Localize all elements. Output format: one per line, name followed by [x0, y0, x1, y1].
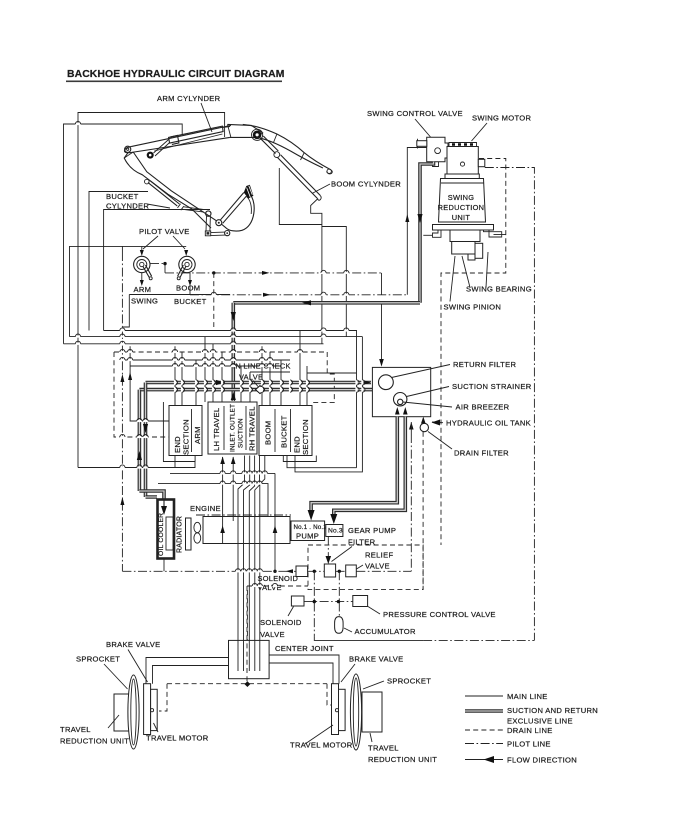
gear pump filter box [324, 564, 335, 577]
bank end sub box left [163, 402, 195, 462]
svg-text:VALVE: VALVE [365, 562, 390, 571]
air breezer [398, 399, 403, 404]
svg-text:RELIEF: RELIEF [365, 551, 393, 560]
svg-text:SUCTION STRAINER: SUCTION STRAINER [452, 382, 532, 391]
swing control valve body [427, 137, 448, 161]
control valve bank box1 [169, 406, 202, 456]
svg-text:TRAVEL: TRAVEL [60, 725, 91, 734]
wire bundle h4 [120, 359, 290, 361]
wire bundle h2 [70, 336, 363, 338]
wire left pilot return 1 [70, 246, 123, 336]
wire swing pilot dashdot [485, 168, 535, 641]
swing pinion housing [450, 230, 480, 242]
wire cooler drop thick A [139, 383, 145, 498]
svg-text:SPROCKET: SPROCKET [387, 677, 431, 686]
wire drain filter down dashed [422, 432, 424, 590]
wire pump to bank suction 1 [222, 457, 224, 544]
excavator elbow pin [253, 131, 262, 140]
solenoid valve SV1 [296, 566, 308, 577]
excavator boom member [243, 124, 331, 169]
engine fan [194, 522, 201, 532]
legend suction return [465, 709, 503, 713]
wire cooler outlet B [158, 484, 268, 517]
excavator arm cylinder eye [147, 152, 154, 159]
wire pilot box right dashed [213, 273, 215, 327]
pump no1 no2 [291, 521, 325, 541]
svg-text:PILOT LINE: PILOT LINE [507, 740, 551, 749]
pilot valve PV1 (arm/swing) [134, 256, 150, 272]
dashed region solenoid [247, 585, 308, 587]
wire bucket cylinder line [104, 210, 210, 331]
svg-text:SWING: SWING [131, 297, 158, 306]
svg-text:VALVE: VALVE [258, 583, 282, 592]
wire tank suction thick A [311, 417, 397, 514]
svg-text:BOOM: BOOM [176, 284, 200, 293]
svg-text:SWING PINION: SWING PINION [444, 303, 502, 312]
svg-text:GEAR PUMP: GEAR PUMP [348, 526, 396, 535]
wire cooler feed [139, 491, 164, 500]
pump no3 [326, 525, 343, 537]
wire row1-row2 dashdot a [313, 571, 315, 637]
wire engine coupling dashdot [196, 514, 291, 516]
wire drain bundle dashed [114, 352, 334, 403]
svg-text:PILOT VALVE: PILOT VALVE [139, 227, 190, 236]
swing motor body [447, 147, 478, 175]
wire inlet feed thick [232, 303, 236, 401]
relief valve [346, 565, 357, 577]
excavator arm cylinder [169, 126, 224, 143]
excavator bucket link bars [206, 211, 211, 216]
wire pilot vertical 2 [130, 346, 169, 421]
wire left travel B [153, 666, 229, 684]
svg-text:SWING CONTROL VALVE: SWING CONTROL VALVE [367, 109, 463, 118]
wire pump return mid [274, 473, 276, 571]
svg-text:ARM CYLYNDER: ARM CYLYNDER [157, 94, 221, 103]
svg-text:SECTION: SECTION [301, 419, 310, 455]
wire left bucket line [89, 192, 148, 331]
svg-text:TRAVEL: TRAVEL [368, 744, 399, 753]
wire cooler outlet A [170, 472, 275, 474]
legend flow direction [465, 759, 503, 761]
svg-text:HYDRAULIC OIL TANK: HYDRAULIC OIL TANK [446, 419, 531, 428]
wire right travel B [269, 663, 333, 684]
excavator bucket [221, 193, 247, 224]
node pilot junction [163, 262, 166, 265]
wire swing valve return thick [420, 162, 434, 303]
svg-text:No.1 . No.2: No.1 . No.2 [294, 524, 328, 531]
wire bundle h5 [130, 365, 281, 367]
arrow out pilot valve boom [189, 273, 191, 280]
oil cooler [158, 500, 175, 559]
svg-text:ACCUMULATOR: ACCUMULATOR [355, 627, 416, 636]
legend pilot line [465, 743, 503, 745]
wire main line thick A [146, 381, 372, 385]
excavator elbow plate [228, 124, 263, 137]
wire arm hose link [322, 227, 346, 337]
wire bundle h1 [104, 331, 357, 468]
svg-text:BRAKE VALVE: BRAKE VALVE [349, 655, 404, 664]
svg-text:PUMP: PUMP [296, 532, 319, 541]
svg-text:SECTION: SECTION [182, 419, 191, 455]
svg-text:SWING MOTOR: SWING MOTOR [472, 114, 531, 123]
legend main line [465, 695, 503, 697]
in line check valve [256, 386, 265, 394]
wire row2 to pilot line [314, 637, 423, 641]
svg-text:RETURN FILTER: RETURN FILTER [453, 360, 516, 369]
arrow into pilot valve arm [140, 250, 144, 256]
svg-text:DRAIN FILTER: DRAIN FILTER [454, 449, 509, 458]
radiator [186, 518, 192, 550]
wire row1-row2 dashdot b [338, 571, 340, 616]
wire relief to tank [410, 422, 412, 434]
svg-text:RH TRAVEL: RH TRAVEL [248, 406, 257, 451]
bank end sub box right [283, 456, 316, 462]
svg-text:SOLENOID: SOLENOID [260, 618, 302, 627]
pilot group divider [129, 294, 230, 296]
excavator dipper member [131, 125, 231, 152]
excavator boom foot pivot [125, 146, 131, 152]
svg-text:BUCKET: BUCKET [106, 192, 139, 201]
arrow out pilot valve arm [141, 273, 143, 280]
engine box [203, 517, 290, 544]
left travel motor brake valve [144, 684, 151, 735]
wire boom cyl drop [311, 199, 322, 344]
wire travel drain dashed [159, 684, 167, 711]
arrow into pilot valve boom [184, 250, 188, 256]
svg-text:SOLENOID: SOLENOID [258, 574, 299, 583]
node pump return [273, 570, 276, 573]
left travel reduction unit [114, 694, 134, 731]
control valve bank box3 [259, 406, 312, 456]
svg-text:SUCTION: SUCTION [238, 418, 245, 448]
svg-text:BUCKET: BUCKET [280, 415, 289, 448]
svg-text:EXCLUSIVE LINE: EXCLUSIVE LINE [507, 717, 573, 726]
return filter [379, 375, 394, 390]
control valve bank box2 [208, 402, 257, 454]
suction strainer [394, 393, 407, 406]
center joint [229, 640, 270, 678]
left sprocket [128, 675, 139, 749]
wire main return thick top [233, 301, 420, 305]
svg-text:BACKHOE HYDRAULIC CIRCUIT DIAG: BACKHOE HYDRAULIC CIRCUIT DIAGRAM [67, 69, 284, 80]
svg-text:MAIN LINE: MAIN LINE [507, 692, 548, 701]
valve bank top ports [175, 346, 196, 405]
wire pilot line boom circuit [190, 286, 407, 295]
right travel reduction unit [362, 692, 382, 732]
svg-text:BRAKE VALVE: BRAKE VALVE [106, 640, 161, 649]
excavator boom cylinder [260, 136, 278, 154]
tank bottom arrows [395, 407, 400, 415]
svg-text:RADIATOR: RADIATOR [177, 516, 184, 553]
pilot valve PV2 (boom/bucket) [179, 256, 195, 272]
svg-text:FLOW DIRECTION: FLOW DIRECTION [507, 756, 577, 765]
svg-text:BOOM: BOOM [264, 421, 273, 445]
pressure control valve [353, 596, 368, 607]
wire bucket hose drop [279, 168, 322, 225]
wire pilot link between valves [150, 263, 165, 265]
wire left travel A [146, 658, 229, 684]
wire bank return right [307, 372, 357, 374]
wire top frame upper [78, 113, 225, 468]
swing reduction unit housing [445, 174, 479, 179]
wire right travel A [269, 655, 339, 684]
svg-text:ENGINE: ENGINE [190, 504, 221, 513]
svg-text:REDUCTION UNIT: REDUCTION UNIT [60, 737, 129, 746]
svg-text:VALVE: VALVE [260, 630, 285, 639]
crossover humps [75, 121, 365, 587]
svg-text:CENTER JOINT: CENTER JOINT [275, 644, 334, 653]
svg-text:DRAIN LINE: DRAIN LINE [507, 726, 553, 735]
wire no3 to filter dashdot [327, 537, 329, 563]
hydraulic oil tank [372, 367, 430, 416]
wire travel lines to center joint [238, 456, 265, 672]
wire pilot row1 dashdot [122, 570, 411, 572]
wire main line thick B [139, 388, 372, 392]
svg-text:CYLYNDER: CYLYNDER [106, 202, 149, 211]
svg-text:SUCTION AND RETURN: SUCTION AND RETURN [507, 706, 598, 715]
excavator bucket pivot [216, 220, 222, 226]
wire pilot vertical left [121, 252, 123, 571]
right travel motor brake valve [332, 684, 339, 735]
svg-text:AIR BREEZER: AIR BREEZER [456, 403, 510, 412]
wire tank suction thick B [334, 417, 406, 518]
wire swing drain dashed rect [441, 159, 506, 546]
wire swing valve supply [407, 148, 426, 295]
drain filter [420, 423, 428, 431]
svg-text:SWING BEARING: SWING BEARING [466, 285, 532, 294]
wire sv2 link dashdot [304, 601, 353, 603]
excavator bucket teeth [244, 185, 254, 199]
svg-text:TRAVEL MOTOR: TRAVEL MOTOR [146, 734, 209, 743]
wire center drain dashed [246, 590, 248, 640]
wire boom return vertical [295, 337, 362, 472]
swing unit flange [433, 225, 494, 231]
accumulator [335, 617, 344, 634]
excavator bucket cylinder [148, 181, 179, 206]
svg-text:INLET. OUTLET: INLET. OUTLET [230, 404, 237, 452]
svg-text:LH TRAVEL: LH TRAVEL [212, 408, 221, 451]
svg-text:OIL COOLER: OIL COOLER [158, 513, 165, 556]
svg-text:TRAVEL MOTOR: TRAVEL MOTOR [290, 741, 353, 750]
svg-text:No.3: No.3 [328, 528, 343, 535]
wire tank top return [381, 304, 383, 362]
right sprocket [350, 674, 361, 750]
valve bank bottom left line [78, 462, 195, 468]
dashed rect gear pump filter [308, 545, 423, 590]
svg-text:BOOM CYLYNDER: BOOM CYLYNDER [331, 180, 401, 189]
wire pilot supply [122, 246, 141, 252]
excavator stick member [124, 153, 211, 228]
svg-text:REDUCTION: REDUCTION [438, 203, 485, 212]
node pilot bucket junction [212, 271, 215, 274]
wire pump to bank suction 2 [232, 457, 234, 521]
wire pilot line arm circuit [165, 272, 382, 274]
solenoid valve SV2 [291, 596, 304, 606]
wire bundle h3 [64, 343, 324, 345]
nodes row1 [313, 570, 316, 573]
svg-text:REDUCTION UNIT: REDUCTION UNIT [368, 755, 437, 764]
legend drain line [465, 729, 503, 731]
svg-text:SPROCKET: SPROCKET [76, 655, 120, 664]
svg-text:ARM: ARM [134, 285, 152, 294]
svg-text:BUCKET: BUCKET [174, 297, 207, 306]
wire top frame lower [64, 124, 183, 344]
wire bank return bottom [287, 456, 357, 468]
svg-text:SWING: SWING [448, 193, 475, 202]
svg-text:PRESSURE CONTROL VALVE: PRESSURE CONTROL VALVE [383, 610, 496, 619]
svg-text:UNIT: UNIT [452, 213, 471, 222]
svg-text:ARM: ARM [193, 426, 202, 444]
